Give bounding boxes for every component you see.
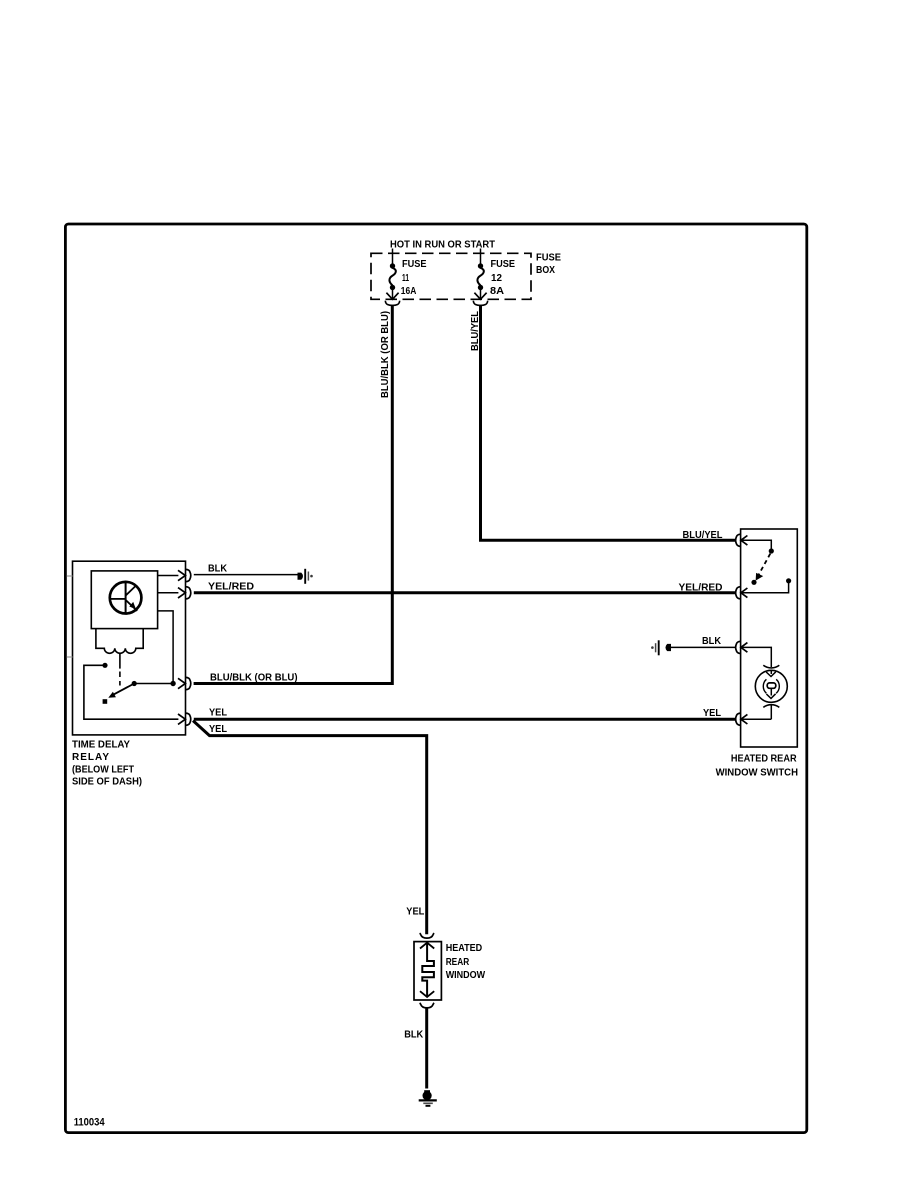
label BLU/YEL rotated [470, 311, 481, 351]
svg-text:RELAY: RELAY [72, 752, 109, 763]
svg-text:YEL: YEL [209, 724, 227, 735]
relay switch contact square [103, 699, 108, 704]
label YEL right [703, 708, 721, 719]
label BLK right [702, 636, 722, 647]
svg-text:SIDE OF DASH): SIDE OF DASH) [72, 777, 142, 788]
svg-text:HEATED: HEATED [446, 943, 483, 954]
switch pin connector BLK [736, 641, 748, 653]
svg-text:BLU/YEL: BLU/YEL [683, 530, 723, 541]
svg-text:BLU/BLK (OR BLU): BLU/BLK (OR BLU) [380, 311, 391, 398]
relay electronics module square [91, 571, 157, 629]
relay pin connector BLK [178, 569, 191, 581]
switch right stub node [786, 578, 791, 583]
svg-text:12: 12 [491, 273, 502, 284]
svg-text:(BELOW LEFT: (BELOW LEFT [72, 764, 134, 775]
wire BLK to ground [425, 1008, 428, 1088]
svg-text:WINDOW: WINDOW [446, 970, 486, 981]
svg-text:110034: 110034 [74, 1117, 106, 1129]
relay coil [96, 629, 143, 654]
wire module to BLU/BLK pin [158, 611, 174, 684]
svg-text:BLU/YEL: BLU/YEL [470, 311, 481, 351]
label BLU/BLK (OR BLU) rotated [380, 311, 391, 398]
relay switch arm with arrow [108, 681, 136, 698]
switch internal wire BLK to bulb [742, 647, 772, 667]
label BLK left [208, 564, 228, 575]
fuse 11 [389, 263, 395, 298]
svg-text:HEATED REAR: HEATED REAR [731, 754, 797, 765]
connector below fuse 12 [473, 293, 487, 306]
heated rear window element [414, 942, 441, 1000]
label YEL at element [406, 906, 424, 917]
relay mount ticks [67, 576, 73, 657]
relay pin connector YEL [178, 713, 191, 725]
relay name label [72, 740, 142, 788]
relay switch fixed contact [102, 663, 107, 668]
fuse box label [536, 253, 561, 277]
wire YEL upper relay to switch [194, 718, 736, 721]
svg-text:YEL: YEL [703, 708, 721, 719]
svg-text:FUSE: FUSE [536, 253, 561, 264]
switch pin connector YEL/RED [736, 587, 748, 599]
connector below heated rear window [420, 1003, 435, 1008]
diagram number [74, 1117, 106, 1129]
label YEL/RED left [208, 581, 254, 592]
svg-text:YEL/RED: YEL/RED [208, 581, 254, 592]
wire module to BLK pin [158, 575, 179, 577]
element name label [446, 943, 486, 981]
fuse 12 [477, 263, 483, 298]
svg-text:REAR: REAR [446, 957, 470, 968]
relay pin connector BLU/BLK [178, 677, 191, 689]
switch arm lower contact node [751, 580, 756, 585]
svg-text:FUSE: FUSE [491, 259, 516, 270]
svg-text:BLK: BLK [208, 564, 228, 575]
svg-text:BLK: BLK [702, 636, 722, 647]
label YEL lower [209, 724, 227, 735]
svg-text:11: 11 [402, 273, 409, 284]
svg-text:YEL: YEL [209, 708, 227, 719]
svg-text:16A: 16A [401, 286, 417, 297]
switch internal wire YEL/RED stub [742, 583, 789, 593]
svg-text:HOT IN RUN OR START: HOT IN RUN OR START [390, 240, 495, 251]
svg-text:BLK: BLK [404, 1029, 424, 1040]
label BLU/YEL right [683, 530, 723, 541]
svg-text:BOX: BOX [536, 265, 555, 276]
wire BLU/YEL from fuse 12 to switch [481, 305, 737, 541]
connector below fuse 11 [385, 293, 399, 306]
switch contact top node [769, 548, 774, 553]
switch internal wire YEL [742, 718, 772, 720]
time delay relay box [73, 561, 186, 735]
fuse box dashed outline [371, 253, 531, 299]
relay actuator link (solid then dashed) [119, 653, 121, 686]
svg-text:YEL/RED: YEL/RED [679, 582, 723, 593]
ground G1 [419, 1090, 437, 1106]
wire stub above fuse 12 [480, 249, 482, 265]
switch pin connector BLU/YEL [736, 534, 748, 546]
svg-text:YEL: YEL [406, 906, 424, 917]
wire module to YEL/RED pin [158, 592, 179, 594]
illumination bulb [755, 665, 787, 719]
svg-text:WINDOW SWITCH: WINDOW SWITCH [716, 767, 798, 778]
wire BLK from relay [194, 574, 298, 576]
svg-text:BLU/BLK (OR BLU): BLU/BLK (OR BLU) [210, 672, 298, 683]
wire YEL lower to heated rear window [193, 721, 427, 935]
switch pin connector YEL [736, 713, 748, 725]
label YEL/RED right [679, 582, 723, 593]
switch arm dashed with arrow [756, 554, 771, 581]
wire arm to junction [134, 683, 173, 685]
label YEL upper [209, 708, 227, 719]
wire fixed contact to YEL pin [84, 665, 178, 719]
svg-text:TIME DELAY: TIME DELAY [72, 740, 130, 751]
junction node [170, 681, 175, 686]
svg-text:8A: 8A [490, 286, 504, 297]
switch name label [716, 754, 798, 779]
label BLK at element [404, 1029, 424, 1040]
wire stub above fuse 11 [392, 249, 394, 265]
wire YEL/RED relay to switch [194, 591, 736, 594]
splice terminator right [651, 640, 671, 655]
relay pin connector YEL/RED [178, 587, 191, 599]
switch internal wire BLU/YEL to contact [742, 540, 772, 548]
label HOT IN RUN OR START [390, 240, 495, 251]
splice terminator left [298, 569, 313, 584]
label BLU/BLK (OR BLU) horizontal [210, 672, 298, 683]
wire BLK to switch [671, 646, 736, 648]
svg-text:FUSE: FUSE [402, 259, 427, 270]
page border frame [65, 224, 806, 1133]
heated rear window switch box [741, 529, 798, 747]
transistor Q1 [110, 582, 142, 614]
fuse 12 labels [490, 259, 515, 297]
wire BLU/BLK (OR BLU) vertical from fuse 11 [194, 305, 393, 684]
connector above heated rear window [420, 933, 435, 938]
fuse 11 labels [401, 259, 427, 297]
